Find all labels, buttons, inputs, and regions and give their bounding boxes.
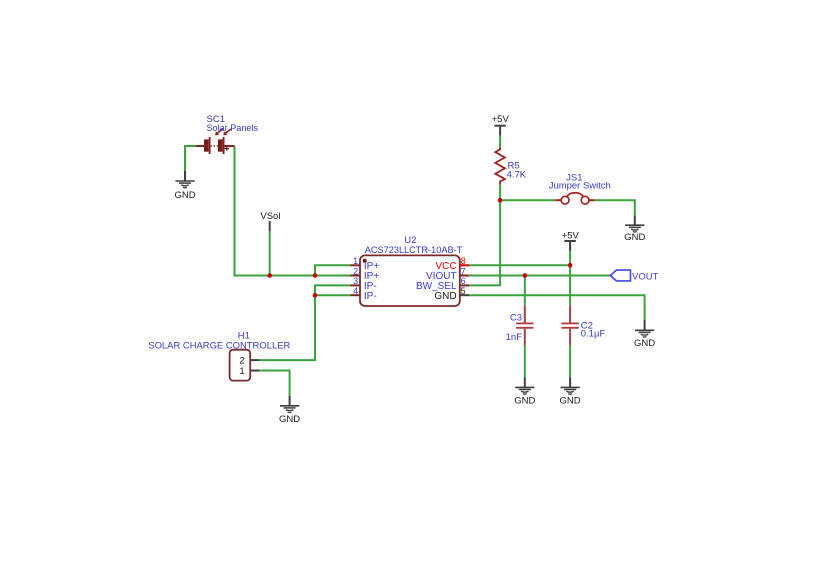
wire net VSol: solar panel right terminal down and right to U2 pin 2	[235, 146, 351, 276]
ground (C2)	[560, 378, 581, 407]
svg-text:GND: GND	[279, 414, 300, 425]
junction U2 pin4 tie	[313, 293, 318, 298]
wire U2 pin 1 to pin 2 tie	[315, 265, 350, 275]
power +5V (VCC)	[562, 231, 580, 252]
wire +5V drop to VCC node	[569, 251, 571, 265]
ground (H1)	[279, 396, 300, 425]
wire JS1 right to ground	[595, 200, 635, 215]
svg-text:VSol: VSol	[260, 211, 280, 222]
svg-text:1nF: 1nF	[506, 332, 523, 343]
ground (U2 pin 5)	[634, 320, 655, 349]
solar panel SC1	[196, 129, 235, 154]
jumper switch JS1	[555, 193, 594, 204]
H1 pin 2	[239, 356, 259, 367]
wire +5V to R5	[499, 136, 501, 148]
wire C3 bottom to ground	[524, 345, 526, 377]
wire C2 bottom to ground	[569, 345, 571, 377]
U2 pin 2 IP+	[350, 266, 379, 282]
svg-text:GND: GND	[634, 338, 655, 349]
svg-text:C3: C3	[510, 313, 522, 324]
svg-text:+5V: +5V	[492, 114, 510, 125]
U2 pin 7 VIOUT	[426, 266, 469, 282]
svg-text:2: 2	[239, 356, 244, 367]
ground (C3)	[514, 378, 535, 407]
junction node VSol	[267, 273, 272, 278]
svg-text:IP-: IP-	[364, 291, 377, 302]
resistor R5	[495, 148, 505, 185]
ground (JS1)	[624, 215, 645, 243]
power +5V (R5)	[492, 114, 510, 136]
net tag VOUT	[610, 270, 630, 281]
svg-text:GND: GND	[624, 232, 645, 243]
svg-text:6: 6	[461, 276, 466, 286]
wire junction to JS1 left	[500, 199, 555, 201]
wire solar panel left to ground	[185, 146, 196, 171]
U2 pin 5 GND	[434, 286, 469, 302]
U2 pin 8 VCC	[435, 256, 469, 272]
wire VIOUT node down to C3	[524, 276, 526, 306]
junction VCC / C2	[568, 263, 573, 268]
U2 pin 3 IP-	[350, 276, 376, 292]
svg-text:GND: GND	[514, 396, 535, 407]
svg-text:8: 8	[461, 256, 466, 266]
svg-text:ACS723LLCTR-10AB-T: ACS723LLCTR-10AB-T	[365, 245, 463, 256]
H1 pin 1	[239, 366, 259, 377]
wire U2 pin 7 VIOUT to VOUT tag	[469, 275, 610, 277]
wire junction down to U2 pin 6 BW_SEL	[469, 200, 500, 285]
svg-text:2: 2	[353, 266, 358, 276]
svg-text:GND: GND	[434, 291, 456, 302]
wire VCC node down to C2	[569, 265, 571, 305]
wire U2 pin 4 stub to tie	[315, 294, 350, 296]
junction U2 pin2 tie	[313, 273, 318, 278]
wire U2 pin 5 GND to ground	[469, 295, 644, 320]
svg-text:GND: GND	[560, 396, 581, 407]
svg-text:VOUT: VOUT	[632, 271, 659, 282]
svg-text:1: 1	[353, 256, 358, 266]
svg-text:SOLAR CHARGE CONTROLLER: SOLAR CHARGE CONTROLLER	[148, 341, 290, 352]
svg-text:5: 5	[461, 286, 466, 296]
svg-text:1: 1	[239, 366, 244, 377]
junction VIOUT / C3	[523, 273, 528, 278]
wire H1 pin 1 to ground	[260, 371, 290, 397]
svg-text:Solar Panels: Solar Panels	[207, 123, 259, 134]
U2 pin 1 marker dot	[363, 259, 367, 263]
svg-text:4: 4	[353, 286, 358, 296]
net label VSol	[260, 211, 280, 231]
svg-text:3: 3	[353, 276, 358, 286]
wire VSol net-label drop	[269, 231, 271, 276]
junction R5 / JS1 / BW_SEL	[498, 198, 503, 203]
header H1 body	[230, 350, 251, 381]
ground (solar panel)	[174, 171, 195, 201]
U2 pin 4 IP-	[350, 286, 376, 302]
U2 pin 6 BW_SEL	[416, 276, 469, 292]
IC U2 body	[360, 255, 460, 306]
wire U2 pin 3 down to H1 pin 2	[260, 285, 351, 360]
svg-text:0.1µF: 0.1µF	[581, 329, 606, 340]
wire R5 to junction	[499, 185, 501, 200]
U2 pin 1 IP+	[350, 256, 379, 272]
wire U2 pin 8 VCC to +5V node	[469, 264, 570, 266]
svg-text:GND: GND	[174, 190, 195, 201]
svg-text:Jumper Switch: Jumper Switch	[549, 180, 611, 191]
svg-text:+5V: +5V	[562, 231, 580, 242]
svg-text:4.7K: 4.7K	[507, 169, 527, 180]
capacitor C3	[516, 305, 533, 345]
capacitor C2	[561, 305, 578, 345]
svg-text:7: 7	[461, 266, 466, 276]
